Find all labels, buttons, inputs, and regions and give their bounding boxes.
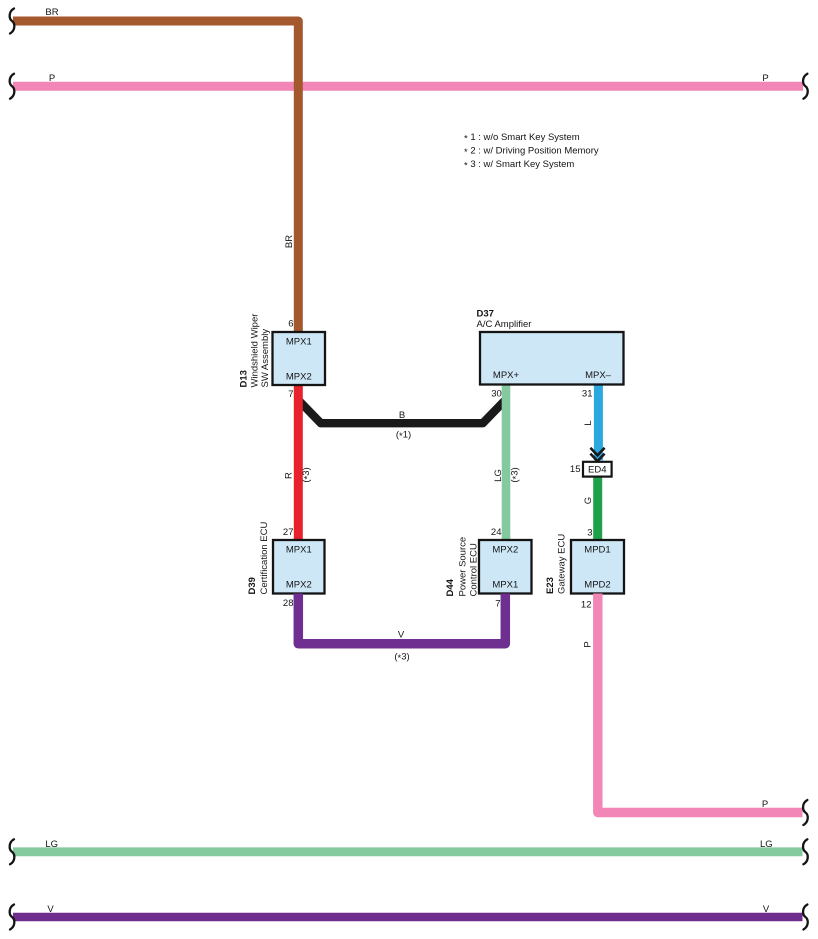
svg-text:V: V xyxy=(763,904,770,915)
svg-text:L: L xyxy=(583,420,594,425)
connector D37 A/C Amplifier xyxy=(480,332,624,385)
svg-text:* 2 : w/ Driving Position Memo: * 2 : w/ Driving Position Memory xyxy=(464,145,599,158)
svg-text:MPX2: MPX2 xyxy=(286,580,312,591)
break symbol right end of bottom V wire xyxy=(803,905,808,930)
svg-text:ED4: ED4 xyxy=(588,465,606,476)
connector D13 Windshield Wiper SW Assembly xyxy=(273,332,326,385)
svg-text:P: P xyxy=(762,73,768,84)
svg-text:15: 15 xyxy=(570,464,581,475)
wire BR horizontal top then vertical down to D13 pin 6 xyxy=(13,21,298,333)
svg-text:R: R xyxy=(284,472,295,479)
wire P pink from E23 pin 12 down then right xyxy=(598,594,803,813)
svg-text:LG: LG xyxy=(493,469,504,482)
svg-text:Gateway ECU: Gateway ECU xyxy=(557,534,568,594)
svg-text:BR: BR xyxy=(45,7,58,18)
svg-text:MPX2: MPX2 xyxy=(286,372,312,383)
svg-text:D37: D37 xyxy=(477,309,494,320)
svg-text:P: P xyxy=(583,641,594,647)
break symbol left end of bottom LG wire xyxy=(10,839,15,864)
svg-text:MPX1: MPX1 xyxy=(492,580,518,591)
wire V purple from D39 pin 28 to D44 pin 7 xyxy=(298,594,505,644)
svg-text:D44: D44 xyxy=(445,578,456,596)
svg-text:A/C Amplifier: A/C Amplifier xyxy=(477,319,532,330)
svg-text:31: 31 xyxy=(582,389,593,400)
connector D44 Power Source Control ECU xyxy=(479,540,532,594)
wire G green from ED4 to E23 pin 3 xyxy=(593,470,602,540)
svg-text:MPX2: MPX2 xyxy=(492,545,518,556)
svg-text:E23: E23 xyxy=(545,577,556,594)
svg-text:LG: LG xyxy=(45,839,58,850)
svg-text:24: 24 xyxy=(491,527,502,538)
break symbol right end of bottom P wire xyxy=(803,800,808,825)
connector D39 Certification ECU xyxy=(273,540,325,594)
wire B black from node on R wire to MPX+ LG wire xyxy=(298,400,505,423)
wire LG bottom horizontal xyxy=(13,847,803,856)
wire V bottom horizontal xyxy=(13,913,803,922)
svg-text:27: 27 xyxy=(283,527,294,538)
svg-text:3: 3 xyxy=(587,528,592,539)
svg-text:12: 12 xyxy=(581,600,592,611)
svg-text:MPD1: MPD1 xyxy=(584,545,610,556)
break symbol right end of P wire xyxy=(803,74,808,99)
wire LG from D37 pin 30 to D44 pin 24 xyxy=(502,385,511,540)
svg-text:30: 30 xyxy=(491,389,502,400)
svg-text:* 3 : w/ Smart Key System: * 3 : w/ Smart Key System xyxy=(464,159,574,172)
svg-text:Windshield Wiper: Windshield Wiper xyxy=(250,314,261,388)
svg-text:7: 7 xyxy=(288,389,293,400)
svg-text:Power Source: Power Source xyxy=(458,537,469,597)
svg-text:(*1): (*1) xyxy=(396,430,411,443)
svg-text:V: V xyxy=(398,630,405,641)
connector ED4 xyxy=(583,462,612,477)
svg-text:MPX1: MPX1 xyxy=(286,545,312,556)
svg-text:P: P xyxy=(762,799,768,810)
svg-text:6: 6 xyxy=(288,319,293,330)
svg-text:MPX+: MPX+ xyxy=(493,370,520,381)
svg-text:MPX–: MPX– xyxy=(585,370,612,381)
arrow double chevron into ED4 xyxy=(590,448,604,461)
svg-text:V: V xyxy=(47,904,54,915)
wire P top horizontal xyxy=(13,82,803,91)
svg-text:G: G xyxy=(583,497,594,504)
svg-text:LG: LG xyxy=(760,839,773,850)
svg-text:B: B xyxy=(399,410,405,421)
svg-text:* 1 : w/o Smart Key System: * 1 : w/o Smart Key System xyxy=(464,132,580,145)
svg-text:28: 28 xyxy=(283,598,294,609)
wire R red from D13 pin 7 to D39 pin 27 xyxy=(294,385,303,540)
svg-text:BR: BR xyxy=(284,235,295,248)
svg-text:D39: D39 xyxy=(247,577,258,594)
break symbol left end of BR wire xyxy=(10,9,15,34)
svg-text:SW Assembly: SW Assembly xyxy=(260,329,271,388)
break symbol left end of bottom V wire xyxy=(10,905,15,930)
svg-text:P: P xyxy=(49,73,55,84)
svg-text:Control ECU: Control ECU xyxy=(469,543,480,596)
connector E23 Gateway ECU xyxy=(571,540,624,594)
svg-text:MPX1: MPX1 xyxy=(286,337,312,348)
break symbol left end of P wire xyxy=(10,74,15,99)
svg-text:(*3): (*3) xyxy=(394,652,409,665)
svg-text:Certification ECU: Certification ECU xyxy=(259,522,270,595)
break symbol right end of bottom LG wire xyxy=(803,839,808,864)
svg-text:7: 7 xyxy=(495,599,500,610)
svg-text:D13: D13 xyxy=(239,370,250,387)
svg-text:(*3): (*3) xyxy=(301,467,314,482)
svg-text:(*3): (*3) xyxy=(510,467,523,482)
wire L blue from D37 pin 31 down to arrow xyxy=(594,384,603,460)
svg-text:MPD2: MPD2 xyxy=(584,580,610,591)
